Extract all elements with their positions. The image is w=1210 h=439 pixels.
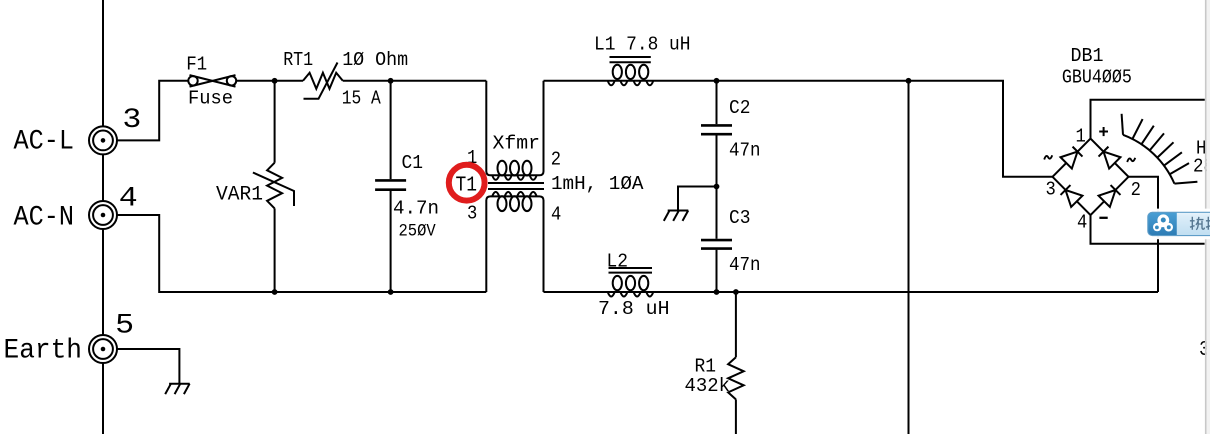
- svg-text:4: 4: [119, 183, 138, 214]
- wire earth stub: [117, 349, 179, 384]
- connector 4 AC-N: [89, 201, 117, 229]
- wire bridge minus output: [1091, 215, 1205, 244]
- svg-text:GBU4ØØ5: GBU4ØØ5: [1062, 67, 1132, 89]
- wire fuse to RT1: [236, 80, 303, 82]
- svg-text:3: 3: [1046, 178, 1056, 200]
- inductor L2 coil: [608, 292, 654, 297]
- svg-text:432k: 432k: [685, 375, 731, 397]
- wire AC-L to fuse: [117, 81, 188, 141]
- wire VAR1 leads: [274, 81, 276, 292]
- capacitor C3: [701, 240, 732, 249]
- diode D3 bottom-left: [1060, 184, 1083, 207]
- svg-text:Earth: Earth: [4, 335, 83, 366]
- wire RT1 to T1 pin1 corner: [343, 80, 487, 82]
- varistor VAR1: [267, 163, 282, 209]
- transformer T1 top winding: [486, 81, 543, 176]
- wire R1 leads: [735, 292, 737, 434]
- svg-text:T1: T1: [456, 174, 478, 198]
- badge logo: [1153, 214, 1173, 231]
- svg-text:C1: C1: [402, 152, 424, 174]
- wire C2 C3 chain: [716, 81, 718, 292]
- inductor L1 core: [610, 56, 651, 58]
- wire bottom rail right through L2: [544, 291, 1159, 293]
- badge text drag chars: [1190, 217, 1210, 230]
- svg-text:AC-L: AC-L: [14, 127, 75, 158]
- bridge ac left: [1044, 155, 1052, 159]
- wire bridge pin2 drop to bottom rail: [1129, 177, 1159, 292]
- bridge minus: [1099, 217, 1107, 219]
- transformer T1 core: [488, 182, 544, 184]
- svg-text:4: 4: [1077, 212, 1087, 234]
- bridge rectifier DB1 diamond: [1053, 139, 1129, 216]
- svg-text:15 A: 15 A: [342, 87, 381, 109]
- diode D4 bottom-right: [1099, 184, 1122, 207]
- svg-text:2: 2: [1131, 179, 1141, 201]
- svg-text:Xfmr: Xfmr: [493, 133, 541, 155]
- wire C1 leads: [390, 81, 392, 292]
- diode D2 top-right: [1098, 146, 1121, 169]
- capacitor C1: [375, 180, 406, 189]
- svg-text:C2: C2: [729, 97, 751, 119]
- transformer T1 bottom winding: [486, 196, 543, 292]
- svg-text:3: 3: [467, 203, 477, 225]
- wire ground stub at C2/C3 node: [678, 187, 717, 211]
- heatsink fins: [1132, 119, 1142, 139]
- svg-text:2: 2: [551, 149, 561, 171]
- svg-text:1Ø Ohm: 1Ø Ohm: [342, 49, 408, 71]
- connector 5 Earth: [89, 335, 117, 363]
- fuse F1: [188, 75, 236, 87]
- svg-text:4: 4: [551, 204, 561, 226]
- svg-text:VAR1: VAR1: [216, 184, 263, 207]
- T1 red highlight circle: [449, 165, 485, 201]
- svg-text:25ØV: 25ØV: [399, 223, 437, 242]
- inductor L1 coil: [608, 81, 654, 86]
- bridge ac right: [1127, 158, 1135, 162]
- svg-text:47n: 47n: [729, 254, 761, 276]
- svg-text:7.8 uH: 7.8 uH: [598, 298, 670, 320]
- ground symbol at C2/C3 node: [664, 211, 689, 221]
- wire main left vertical bus: [102, 0, 104, 434]
- diode D1 top-left: [1061, 146, 1084, 169]
- resistor RT1 thermistor: [303, 73, 343, 89]
- svg-text:L1 7.8 uH: L1 7.8 uH: [594, 34, 691, 56]
- svg-text:L2: L2: [607, 251, 629, 273]
- svg-text:F1: F1: [186, 54, 207, 76]
- svg-text:3: 3: [122, 105, 141, 136]
- svg-text:R1: R1: [695, 355, 717, 377]
- svg-text:RT1: RT1: [283, 49, 313, 71]
- svg-text:1: 1: [1076, 126, 1086, 148]
- capacitor C2: [701, 125, 732, 134]
- bridge plus: [1099, 127, 1108, 136]
- heatsink arc: [1123, 135, 1174, 184]
- wire AC-N bottom rail to T1 pin3: [117, 215, 486, 292]
- wire DC mid vertical output: [908, 81, 910, 434]
- svg-text:Fuse: Fuse: [188, 87, 233, 109]
- svg-text:4.7n: 4.7n: [393, 197, 439, 219]
- wire bridge plus output: [1091, 100, 1205, 139]
- svg-text:DB1: DB1: [1071, 45, 1104, 67]
- svg-text:C3: C3: [729, 207, 751, 229]
- resistor R1: [728, 357, 744, 399]
- svg-text:5: 5: [115, 311, 134, 342]
- ground symbol earth: [165, 384, 190, 394]
- inductor L2 core: [609, 267, 653, 269]
- svg-text:47n: 47n: [729, 139, 761, 161]
- wire top rail right through L1 to bridge pin3: [544, 81, 1053, 177]
- svg-text:1mH, 1ØA: 1mH, 1ØA: [551, 173, 644, 195]
- connector 3 AC-L: [89, 126, 117, 154]
- overlay badge netdisk: [1145, 209, 1210, 240]
- heatsink end ticks: [1122, 114, 1123, 135]
- svg-text:AC-N: AC-N: [14, 203, 75, 234]
- right panel divider: [1205, 0, 1207, 434]
